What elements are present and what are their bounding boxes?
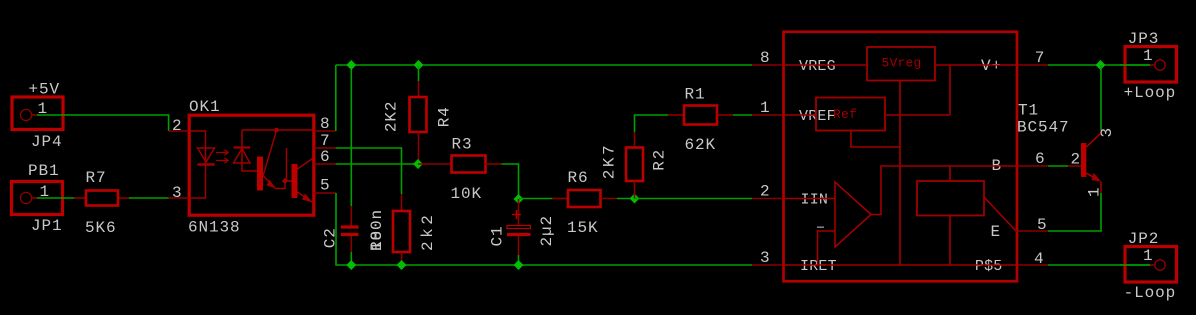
svg-text:+5V: +5V bbox=[29, 81, 61, 99]
svg-text:T1: T1 bbox=[1018, 102, 1039, 120]
IC internal Ref bottom link bbox=[851, 131, 900, 148]
svg-text:2: 2 bbox=[760, 183, 771, 201]
svg-text:R1: R1 bbox=[685, 86, 706, 104]
IC internal output stage box bbox=[917, 181, 984, 216]
junction bottom rail R8 bbox=[397, 260, 407, 270]
transistor T1 bbox=[1068, 130, 1101, 193]
wire JP1 to R7 bbox=[32, 197, 39, 199]
IC internal drop B to box bbox=[949, 166, 951, 181]
junction C1/R6 bbox=[514, 194, 524, 204]
pin 7 of OK1 bbox=[314, 132, 336, 150]
OK1 transistor Q2 bbox=[292, 159, 313, 203]
resistor R3 bbox=[418, 156, 502, 173]
svg-text:V+: V+ bbox=[981, 57, 1002, 75]
svg-text:JP3: JP3 bbox=[1128, 30, 1160, 48]
svg-text:7: 7 bbox=[1035, 49, 1046, 67]
op-amp U1 bbox=[835, 182, 871, 247]
wire R6 to junction bbox=[617, 198, 635, 200]
pin 8 of OK1 bbox=[314, 115, 336, 133]
IC internal 5Vreg block bbox=[867, 47, 935, 81]
wire R3 to C1 junction bbox=[502, 164, 519, 199]
IC internal wire IIN to op-amp bbox=[785, 198, 835, 200]
pin 2 IIN bbox=[752, 183, 784, 201]
svg-text:IRET: IRET bbox=[800, 258, 837, 275]
pin 3 IRET bbox=[752, 249, 784, 267]
svg-text:5: 5 bbox=[320, 177, 331, 195]
IC U1 box (XTR device) bbox=[784, 32, 1018, 281]
svg-text:8: 8 bbox=[760, 49, 771, 67]
svg-text:R8: R8 bbox=[368, 230, 386, 251]
wire R2 top to R1 bbox=[635, 115, 669, 132]
pin 6 B bbox=[1016, 150, 1048, 168]
wire JP4 to OK1 pin2 corner bbox=[32, 114, 39, 116]
IC internal drop from V+ line bbox=[949, 65, 951, 115]
svg-text:VREG: VREG bbox=[799, 58, 836, 75]
svg-text:2: 2 bbox=[172, 117, 183, 135]
IC internal diagonal to E bbox=[984, 197, 1016, 231]
svg-text:5K6: 5K6 bbox=[85, 219, 117, 237]
pin 5 E bbox=[1016, 216, 1048, 234]
junction R6/R2 bbox=[630, 194, 640, 204]
junction pin6/R4/R3 bbox=[413, 159, 423, 169]
svg-text:P$5: P$5 bbox=[975, 258, 1003, 275]
IC internal long vertical bbox=[899, 81, 901, 266]
wire junction to R6 bbox=[519, 198, 554, 200]
svg-text:2: 2 bbox=[1071, 150, 1082, 168]
OK1 internal photodiode bbox=[234, 130, 258, 171]
svg-text:15K: 15K bbox=[567, 219, 599, 237]
svg-text:6: 6 bbox=[1035, 150, 1046, 168]
op-amp minus input stub bbox=[818, 231, 836, 265]
svg-text:8: 8 bbox=[320, 115, 331, 133]
svg-text:2k2: 2k2 bbox=[419, 212, 437, 251]
wire V+ to JP3 bbox=[1048, 64, 1150, 66]
svg-text:Ref: Ref bbox=[833, 107, 857, 122]
svg-text:+Loop: +Loop bbox=[1124, 84, 1177, 102]
wire pin8 drop bbox=[335, 65, 337, 131]
OK1 internal junction bbox=[275, 128, 279, 132]
OK1 internal node dot bbox=[282, 178, 288, 184]
resistor R4 bbox=[410, 81, 427, 164]
optocoupler OK1 box bbox=[189, 115, 314, 215]
svg-text:10K: 10K bbox=[451, 185, 483, 203]
resistor R6 bbox=[552, 190, 617, 207]
svg-text:R6: R6 bbox=[568, 169, 589, 187]
IC internal IRET rail bbox=[785, 264, 1016, 266]
IC internal wire VREF to Ref bbox=[785, 114, 816, 116]
svg-text:1: 1 bbox=[1143, 47, 1154, 65]
wire R4 top bbox=[418, 65, 420, 81]
svg-text:E: E bbox=[990, 223, 1001, 241]
wire pin6 to junction bbox=[336, 163, 418, 165]
wire pin5 drop bbox=[336, 193, 752, 265]
value 100n overlapped with name R8 (rotated) bbox=[368, 209, 386, 251]
svg-text:3: 3 bbox=[760, 249, 771, 267]
pin 3 of OK1 bbox=[169, 184, 189, 202]
svg-text:-Loop: -Loop bbox=[1124, 284, 1177, 302]
junction top rail R4 bbox=[414, 60, 424, 70]
junction top rail C2 bbox=[346, 60, 356, 70]
svg-text:6N138: 6N138 bbox=[188, 219, 241, 237]
wire overlay into JP3 bbox=[1120, 64, 1150, 66]
IC internal wire 5Vreg to V+ bbox=[935, 64, 1016, 66]
svg-text:4: 4 bbox=[1034, 250, 1045, 268]
connector JP2 bbox=[1125, 247, 1177, 283]
wire collector drop bbox=[1100, 65, 1102, 130]
pin 5 of OK1 bbox=[314, 177, 336, 195]
junction bottom rail C1 bbox=[514, 260, 524, 270]
svg-text:OK1: OK1 bbox=[189, 98, 221, 116]
wire C2 bottom bbox=[350, 252, 352, 265]
IC internal wire VREG to 5Vreg bbox=[785, 64, 867, 66]
OK1 internal top rail to pin 8 bbox=[242, 129, 313, 131]
capacitor C2 bbox=[341, 206, 359, 252]
wire pin7 to R8 bbox=[336, 148, 402, 194]
svg-text:C2: C2 bbox=[322, 227, 340, 248]
resistor R8 bbox=[393, 194, 410, 265]
svg-text:JP2: JP2 bbox=[1128, 230, 1160, 248]
wire overlay into JP2 bbox=[1120, 264, 1150, 266]
svg-text:VREF: VREF bbox=[799, 108, 836, 125]
connector JP3 bbox=[1125, 47, 1177, 83]
svg-text:R7: R7 bbox=[86, 169, 107, 187]
capacitor C1 bbox=[507, 199, 531, 255]
svg-text:62K: 62K bbox=[685, 136, 717, 154]
op-amp minus label bbox=[817, 226, 824, 228]
OK1 internal pin7 drop bbox=[287, 148, 292, 181]
svg-text:1: 1 bbox=[1086, 186, 1104, 197]
pin 6 of OK1 bbox=[314, 148, 336, 166]
pin 4 P$5 bbox=[1016, 250, 1048, 268]
pin 8 VREG bbox=[752, 49, 784, 67]
IC internal wire Ref to V+ drop bbox=[885, 114, 950, 116]
junction bottom rail C2 bbox=[346, 260, 356, 270]
OK1 transistor Q1 bbox=[257, 131, 285, 191]
svg-text:R3: R3 bbox=[452, 135, 473, 153]
wire B to T1 base bbox=[1048, 165, 1068, 167]
svg-text:JP1: JP1 bbox=[31, 217, 63, 235]
svg-text:R4: R4 bbox=[436, 106, 454, 127]
svg-text:5: 5 bbox=[1037, 216, 1048, 234]
OK1 light arrows bbox=[216, 150, 228, 163]
pin 2 of OK1 bbox=[169, 117, 189, 135]
svg-text:JP4: JP4 bbox=[31, 133, 63, 151]
svg-text:C1: C1 bbox=[489, 225, 507, 246]
svg-text:1: 1 bbox=[1143, 247, 1154, 265]
svg-text:BC547: BC547 bbox=[1017, 119, 1070, 137]
pin 1 VREF bbox=[752, 99, 784, 117]
resistor R2 bbox=[626, 132, 643, 199]
svg-text:3: 3 bbox=[1098, 127, 1116, 138]
wire P$5 to JP2 bbox=[1048, 264, 1150, 266]
svg-text:2µ2: 2µ2 bbox=[538, 215, 556, 247]
wire top rail bbox=[336, 64, 752, 66]
svg-text:5Vreg: 5Vreg bbox=[882, 55, 922, 70]
connector JP4 bbox=[12, 97, 63, 130]
op-amp output to B bbox=[871, 166, 1016, 215]
wire T1 emitter to E bbox=[1048, 193, 1101, 231]
svg-text:6: 6 bbox=[320, 148, 331, 166]
OK1 internal LED bbox=[189, 131, 215, 198]
svg-text:2K7: 2K7 bbox=[601, 143, 619, 179]
svg-text:R2: R2 bbox=[650, 148, 668, 171]
connector JP1 bbox=[12, 182, 63, 215]
svg-text:1: 1 bbox=[760, 99, 771, 117]
IC internal Ref block bbox=[816, 98, 885, 131]
wire C2 drop bbox=[350, 65, 352, 206]
svg-text:2K2: 2K2 bbox=[382, 101, 400, 133]
wire R1 to IC pin1 bbox=[733, 114, 752, 116]
junction V+/T1 collector bbox=[1096, 60, 1106, 70]
svg-text:3: 3 bbox=[172, 184, 183, 202]
IC internal drop box to IRET bbox=[949, 216, 951, 266]
wire C1 bottom bbox=[518, 255, 520, 265]
resistor R7 bbox=[74, 191, 130, 206]
pin 7 V+ bbox=[1016, 49, 1048, 67]
wire R7 to OK1 pin3 bbox=[129, 197, 169, 199]
svg-text:IIN: IIN bbox=[801, 192, 829, 209]
resistor R1 bbox=[668, 106, 733, 125]
svg-text:PB1: PB1 bbox=[28, 162, 60, 180]
wire junction to IC pin2 bbox=[635, 198, 753, 200]
